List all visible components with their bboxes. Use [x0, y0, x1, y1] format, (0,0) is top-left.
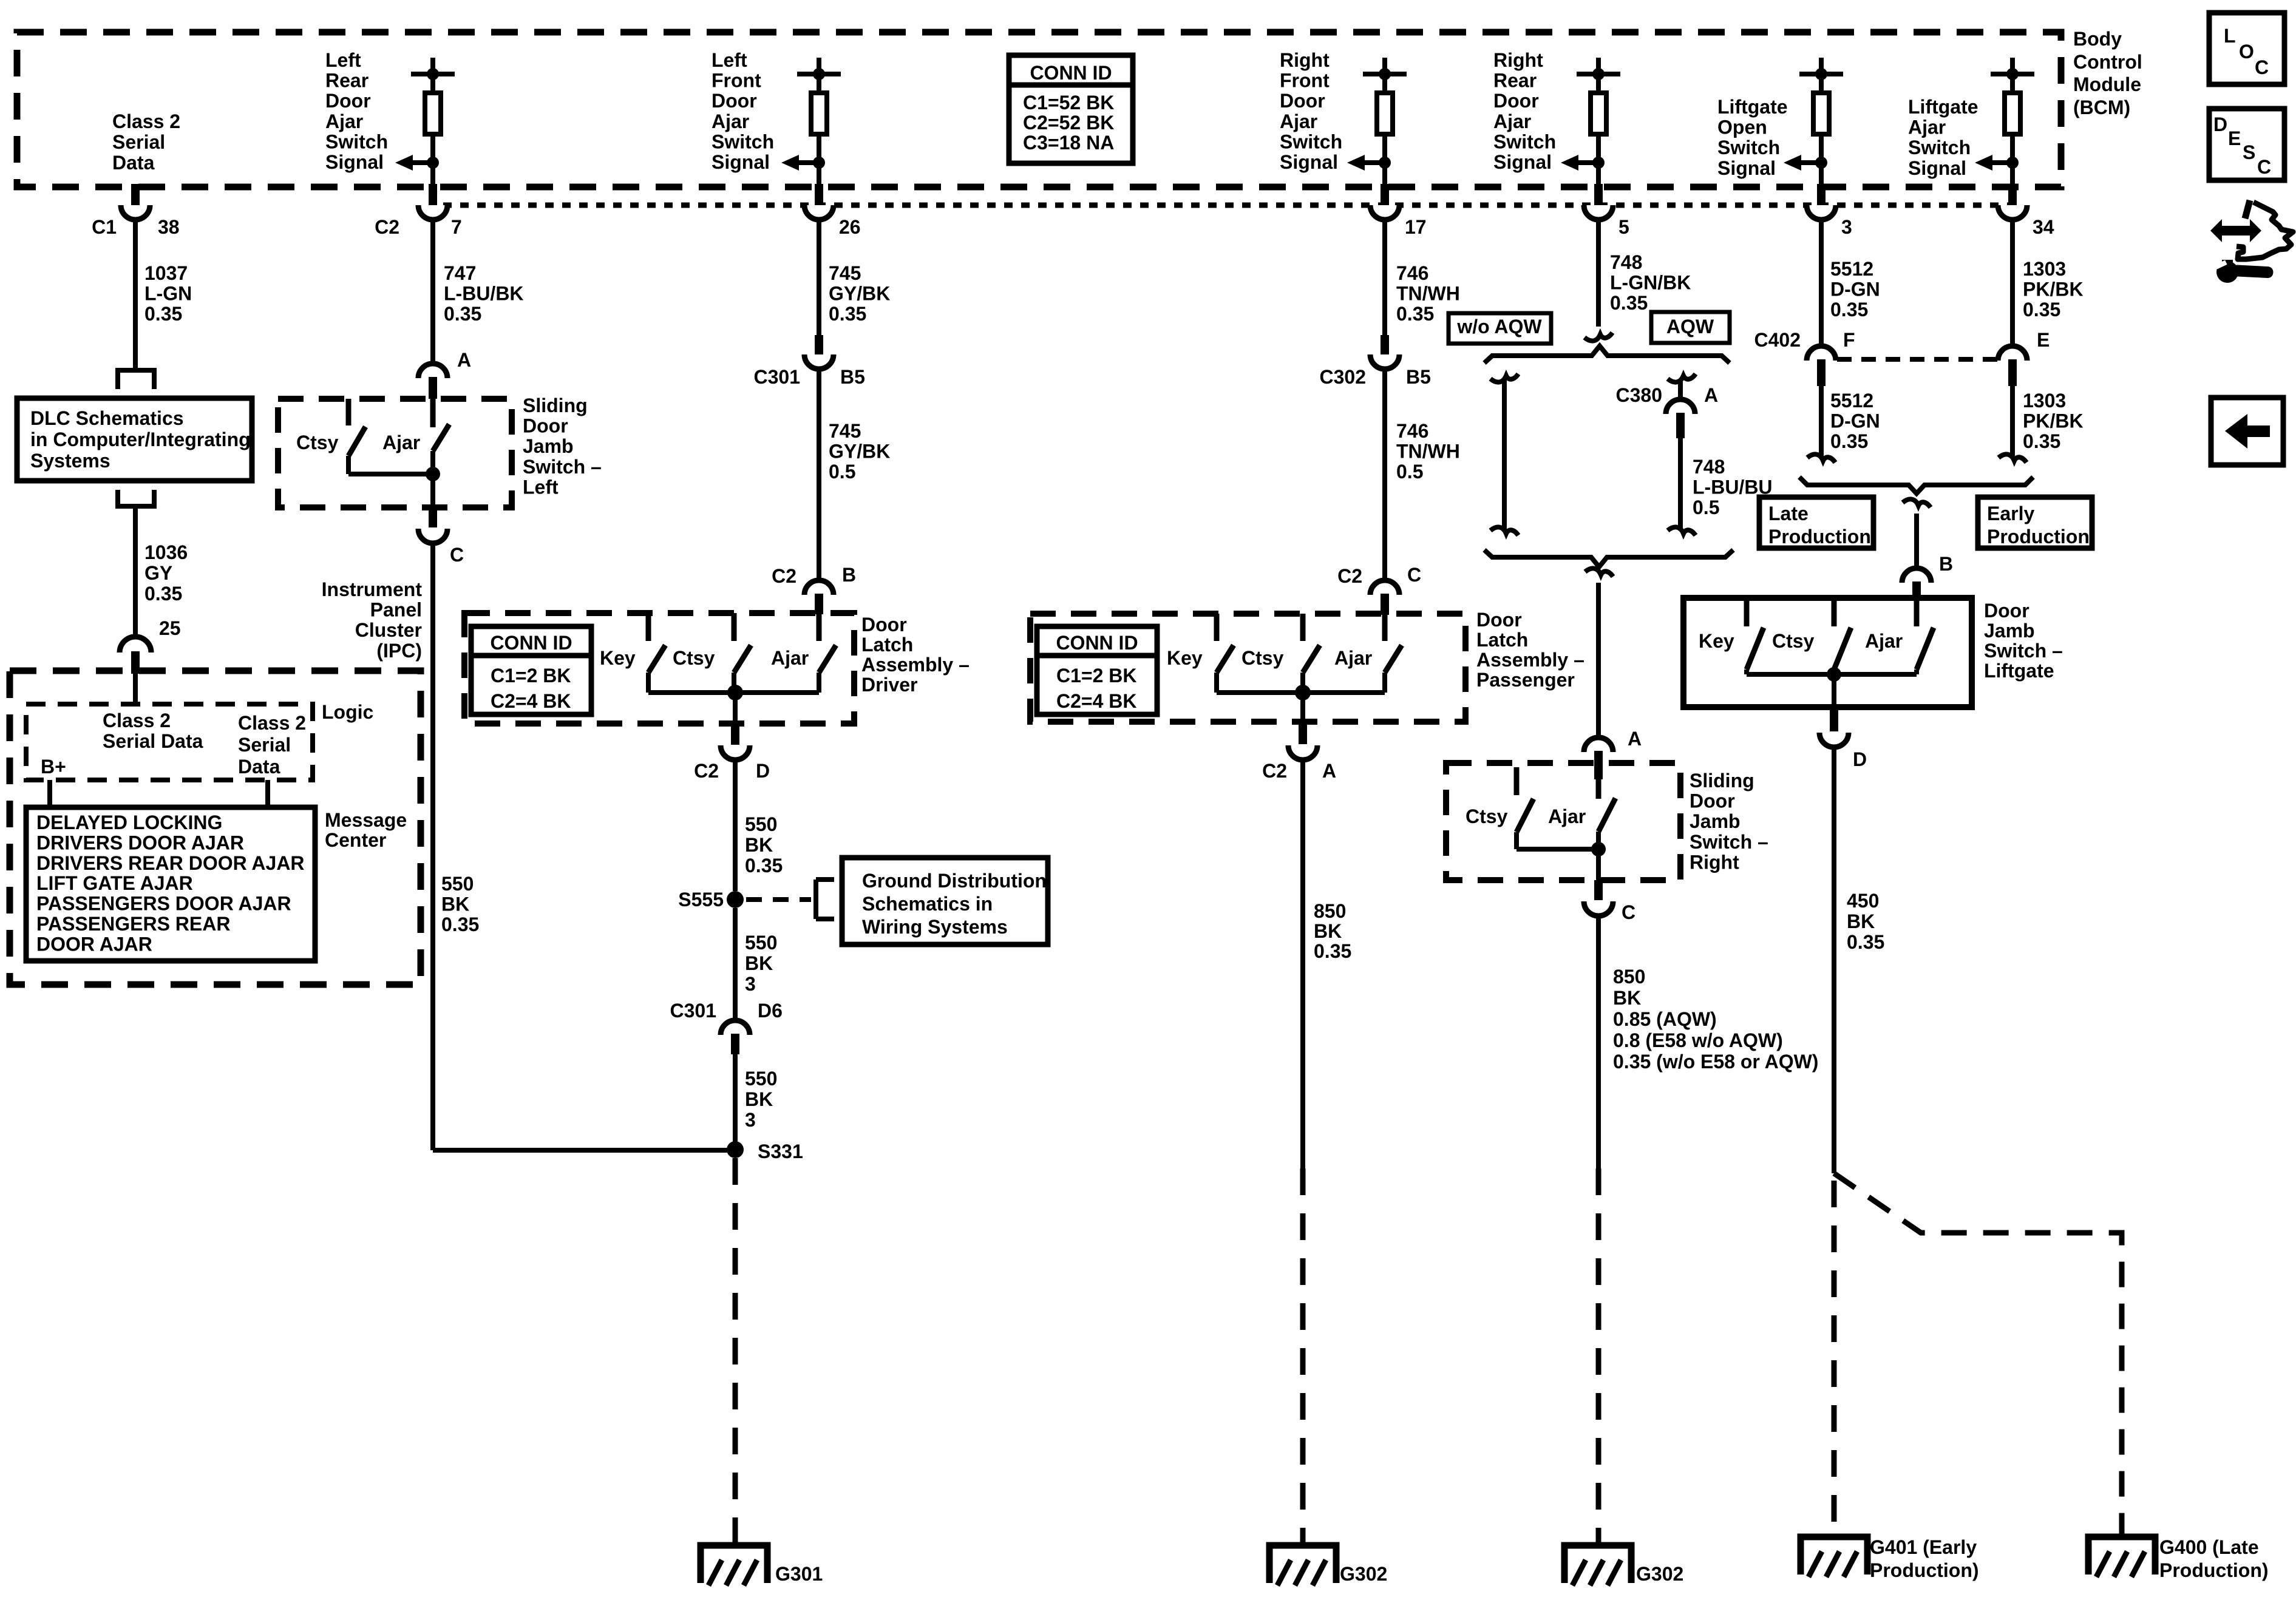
svg-text:A: A — [1322, 760, 1336, 782]
connector pin: sliding door left pin A — [429, 377, 437, 399]
connector pin (BCM side): BCM C1 pin 38 — [131, 184, 140, 205]
svg-text:746: 746 — [1396, 262, 1428, 284]
svg-text:G400 (Late: G400 (Late — [2159, 1536, 2259, 1558]
dashed wire: sliding door right to ground G302 — [1596, 1168, 1601, 1545]
svg-text:Ajar: Ajar — [325, 110, 363, 132]
svg-text:Cluster: Cluster — [355, 619, 422, 641]
svg-text:0.8 (E58 w/o AQW): 0.8 (E58 w/o AQW) — [1613, 1029, 1783, 1051]
svg-text:7: 7 — [451, 216, 462, 238]
connector pin: C302 B5 — [1381, 335, 1389, 354]
junction dot: passenger latch common — [1295, 685, 1311, 700]
svg-text:C: C — [450, 544, 464, 566]
svg-text:Signal: Signal — [325, 151, 384, 173]
table: passenger latch CONN ID — [1037, 626, 1157, 714]
component box: Door Jamb Switch - Liftgate — [1683, 598, 1972, 707]
connector socket: BCM C2 pin 3 — [1807, 205, 1836, 220]
svg-text:Wiring Systems: Wiring Systems — [862, 916, 1008, 938]
svg-text:Early: Early — [1987, 503, 2034, 524]
component plug bracket above DLC box — [115, 368, 157, 373]
resistor: left rear door ajar switch sense (inside BCM) — [430, 58, 435, 74]
svg-text:GY: GY — [144, 562, 172, 584]
svg-text:Switch: Switch — [1280, 131, 1342, 152]
svg-text:Ctsy: Ctsy — [1466, 805, 1508, 827]
svg-text:S: S — [2243, 141, 2255, 163]
wire: right rear door ajar resistor to BCM edge — [1596, 134, 1601, 187]
svg-text:Driver: Driver — [861, 674, 918, 696]
svg-text:Signal: Signal — [1908, 157, 1966, 179]
svg-text:G302: G302 — [1340, 1563, 1387, 1585]
svg-text:E: E — [2228, 127, 2241, 149]
connector socket: BCM C2 pin 17 — [1370, 205, 1399, 220]
svg-text:Ctsy: Ctsy — [1772, 630, 1815, 652]
svg-text:DRIVERS REAR DOOR AJAR: DRIVERS REAR DOOR AJAR — [36, 852, 305, 874]
svg-text:BK: BK — [745, 834, 773, 856]
connector C402 in-line dashed boundary — [1837, 357, 1997, 362]
svg-text:C2=4 BK: C2=4 BK — [491, 690, 571, 712]
svg-text:PK/BK: PK/BK — [2023, 410, 2084, 432]
svg-text:C: C — [1622, 901, 1635, 923]
svg-text:Class 2: Class 2 — [103, 710, 171, 731]
switch Ctsy (liftgate): blade — [1834, 628, 1851, 670]
junction dot on liftgate ajar wire — [2006, 157, 2019, 169]
svg-text:Passenger: Passenger — [1476, 669, 1575, 691]
wire: right front door ajar resistor to BCM edge — [1382, 134, 1387, 187]
switch Ajar (passenger latch): stub from pin C — [1382, 614, 1388, 641]
switch Key (driver latch): blade — [648, 645, 665, 673]
svg-text:Switch –: Switch – — [1984, 640, 2063, 662]
svg-text:(IPC): (IPC) — [376, 640, 422, 662]
svg-text:1037: 1037 — [144, 262, 188, 284]
svg-text:Jamb: Jamb — [1690, 810, 1741, 832]
svg-text:w/o AQW: w/o AQW — [1456, 316, 1542, 337]
svg-text:Switch: Switch — [712, 131, 774, 152]
svg-text:A: A — [457, 349, 471, 371]
svg-text:Ctsy: Ctsy — [296, 432, 339, 453]
svg-text:Front: Front — [1280, 70, 1330, 92]
ground G401 — [1801, 1537, 1867, 1575]
module box: Body Control Module (BCM), dashed outline — [17, 32, 2061, 187]
svg-text:Production): Production) — [2159, 1559, 2269, 1581]
junction dot on right rear door ajar wire — [1592, 157, 1605, 169]
svg-text:5: 5 — [1618, 216, 1629, 238]
wire: circuit 745 GY/BK 0.5 — [817, 369, 821, 580]
table: driver latch CONN ID — [471, 626, 591, 714]
svg-text:0.35: 0.35 — [2023, 299, 2060, 320]
component box: Sliding Door Jamb Switch - Left, dashed — [278, 399, 512, 507]
switch Ctsy (driver latch): contact stub — [732, 613, 737, 641]
connector socket: driver latch C2 pin B — [804, 580, 834, 595]
svg-text:TN/WH: TN/WH — [1396, 441, 1460, 463]
connector pin: liftgate jamb switch pin B — [1912, 581, 1921, 598]
connector pin (BCM side): BCM C2 pin 34 — [2008, 184, 2017, 205]
wire: liftgate switch common rail — [1747, 672, 1917, 677]
svg-text:550: 550 — [745, 813, 777, 835]
svg-text:L-BU/BK: L-BU/BK — [444, 283, 524, 305]
svg-text:0.35: 0.35 — [1396, 303, 1434, 325]
svg-text:C1=52 BK: C1=52 BK — [1023, 92, 1114, 114]
wire: circuit 745 GY/BK — [817, 220, 821, 335]
svg-text:C: C — [2257, 156, 2271, 178]
svg-text:(BCM): (BCM) — [2073, 97, 2130, 118]
svg-text:Door: Door — [712, 90, 757, 112]
option box: w/o AQW — [1449, 313, 1551, 344]
connector pin: passenger latch C2 pin C — [1381, 594, 1389, 615]
wire curl: AQW branch bottom — [1668, 527, 1696, 535]
svg-text:C302: C302 — [1320, 366, 1367, 388]
resistor: right rear door ajar switch sense (inside BCM) — [1596, 58, 1601, 74]
svg-text:BK: BK — [1314, 920, 1342, 942]
resistor: right front door ajar switch sense (inside BCM) — [1382, 58, 1387, 74]
svg-text:Switch: Switch — [1493, 131, 1556, 152]
svg-text:Switch –: Switch – — [1690, 831, 1768, 853]
svg-text:26: 26 — [839, 216, 861, 238]
svg-text:D: D — [756, 760, 770, 782]
svg-text:0.35: 0.35 — [1610, 292, 1648, 314]
svg-text:A: A — [1704, 384, 1718, 406]
signal arrow: liftgate open — [1801, 160, 1821, 165]
block: IPC Logic, dashed — [26, 704, 313, 780]
reference box: Ground Distribution Schematics — [842, 858, 1048, 944]
svg-text:C2: C2 — [772, 565, 796, 587]
svg-text:Switch –: Switch – — [523, 456, 602, 478]
svg-text:550: 550 — [745, 1068, 777, 1090]
signal arrow: left rear door ajar — [413, 160, 433, 165]
svg-text:0.35: 0.35 — [2023, 430, 2060, 452]
icon box: LOC — [2209, 13, 2284, 84]
svg-text:1303: 1303 — [2023, 258, 2066, 280]
connector pin: driver latch C2 pin B — [815, 594, 823, 614]
wire: circuit 850 BK — [1596, 916, 1601, 1168]
svg-text:C402: C402 — [1754, 329, 1801, 351]
table: BCM CONN ID — [1009, 55, 1133, 163]
svg-text:PASSENGERS REAR: PASSENGERS REAR — [36, 913, 230, 935]
switch Ctsy (driver latch): blade — [734, 645, 751, 673]
svg-text:Ajar: Ajar — [771, 647, 809, 669]
switch Key (liftgate): contact stub — [1744, 598, 1750, 626]
option box: Late Production — [1759, 497, 1873, 548]
component box: Door Latch Assembly - Driver, dashed — [464, 613, 854, 724]
connector pin: sliding door left pin C — [429, 507, 437, 527]
svg-text:Instrument: Instrument — [322, 578, 423, 600]
svg-text:Ajar: Ajar — [1865, 630, 1903, 652]
svg-text:in Computer/Integrating: in Computer/Integrating — [30, 429, 251, 450]
svg-text:0.35: 0.35 — [441, 914, 479, 935]
svg-text:Class 2: Class 2 — [112, 110, 180, 132]
wire curl: early production branch end — [1999, 454, 2026, 463]
svg-text:Rear: Rear — [325, 70, 369, 92]
svg-text:Rear: Rear — [1493, 70, 1537, 92]
svg-text:AQW: AQW — [1666, 316, 1714, 337]
svg-text:450: 450 — [1847, 890, 1879, 912]
svg-text:Door: Door — [523, 415, 568, 437]
svg-text:0.35: 0.35 — [1314, 940, 1351, 962]
switch Key (passenger latch): blade to common rail — [1214, 673, 1219, 693]
switch Ajar (passenger latch): blade to rail — [1382, 673, 1387, 693]
wire: circuit 748 L-BU/BU 0.5 — [1678, 438, 1683, 531]
connector pin: sliding door right pin C — [1594, 880, 1603, 900]
icon: connector service glyph (double arrow, shell outline, wrench) — [2210, 219, 2261, 242]
svg-text:CONN ID: CONN ID — [1056, 632, 1138, 654]
svg-text:PK/BK: PK/BK — [2023, 279, 2084, 300]
svg-text:Assembly –: Assembly – — [1476, 649, 1584, 671]
connector socket: sliding door left pin C — [418, 529, 447, 543]
connector socket: C380 pin A — [1666, 399, 1695, 414]
svg-text:Class 2: Class 2 — [238, 712, 306, 734]
option brace (bottom, merges branches) — [1484, 550, 1733, 567]
connector pin: passenger latch C2 pin A — [1299, 722, 1307, 744]
wire: AQW branch to C380 — [1678, 380, 1683, 399]
svg-text:Module: Module — [2073, 73, 2141, 95]
svg-text:CONN ID: CONN ID — [490, 632, 572, 654]
signal arrow: left front door ajar — [799, 160, 819, 165]
svg-text:Assembly –: Assembly – — [861, 654, 970, 676]
dashed wire: liftgate ground branch (late production) jog to G400 — [1834, 1173, 2122, 1537]
wire curl: merged branch continue — [1585, 568, 1613, 577]
svg-text:Serial: Serial — [238, 734, 291, 756]
svg-text:Door: Door — [1690, 790, 1735, 812]
svg-text:A: A — [1628, 728, 1642, 750]
svg-text:Ajar: Ajar — [1280, 110, 1317, 132]
svg-text:Data: Data — [112, 152, 155, 174]
ground G301 — [701, 1545, 767, 1583]
connector socket: sliding door right pin C — [1584, 901, 1613, 916]
wire: pin 25 into IPC logic — [133, 671, 138, 704]
svg-text:C1: C1 — [92, 216, 117, 238]
switch Ajar (driver latch): stub from pin B — [817, 613, 822, 641]
junction dot on right front door ajar wire — [1379, 157, 1391, 169]
svg-text:1036: 1036 — [144, 541, 188, 563]
svg-text:Door: Door — [325, 90, 371, 112]
wire: left front door ajar resistor to BCM edge — [817, 134, 821, 187]
icon box: back arrow — [2211, 398, 2283, 465]
production option brace (merges liftgate branches) — [1799, 477, 2033, 493]
svg-text:748: 748 — [1693, 456, 1725, 478]
wire: circuit 850 BK 0.35 — [1300, 760, 1305, 1168]
svg-text:Front: Front — [712, 70, 761, 92]
svg-text:B: B — [842, 564, 856, 586]
svg-text:O: O — [2239, 41, 2254, 63]
switch Ajar (left sliding door): blade — [433, 424, 449, 451]
svg-text:DLC Schematics: DLC Schematics — [30, 407, 184, 429]
svg-text:Open: Open — [1717, 117, 1767, 138]
svg-text:Jamb: Jamb — [523, 435, 574, 457]
svg-text:F: F — [1843, 329, 1855, 351]
connector socket: liftgate switch pin D — [1819, 733, 1849, 747]
svg-text:PASSENGERS DOOR AJAR: PASSENGERS DOOR AJAR — [36, 893, 291, 915]
svg-text:3: 3 — [1841, 216, 1852, 238]
svg-text:0.35: 0.35 — [829, 303, 866, 325]
svg-text:Signal: Signal — [1717, 157, 1776, 179]
dashed wire: passenger latch to ground G302 — [1300, 1168, 1306, 1545]
wire: B+ to message center — [47, 780, 52, 807]
dashed wire: S331 to ground G301 — [733, 1158, 738, 1545]
svg-text:17: 17 — [1405, 216, 1427, 238]
svg-text:Key: Key — [1699, 630, 1734, 652]
svg-text:850: 850 — [1314, 900, 1346, 922]
svg-text:D: D — [2213, 114, 2227, 135]
switch Ctsy (right sliding door): blade — [1517, 799, 1533, 832]
connector pin (BCM side): BCM C2 pin 3 — [1817, 184, 1826, 205]
resistor: liftgate open switch sense (inside BCM) — [1819, 58, 1824, 74]
junction dot on left rear door ajar wire — [427, 157, 439, 169]
svg-text:Latch: Latch — [861, 634, 913, 656]
wire: circuit 747 L-BU/BK — [430, 220, 435, 364]
svg-text:B5: B5 — [840, 366, 865, 388]
switch Ctsy (right sliding door): blade to common rail — [1514, 832, 1519, 849]
wire: ajar common down (right sliding door) — [1596, 832, 1601, 880]
svg-text:Ajar: Ajar — [1908, 117, 1946, 138]
svg-text:Switch: Switch — [1908, 137, 1971, 158]
connector pin: C301 D6 — [731, 1034, 739, 1054]
svg-text:Jamb: Jamb — [1984, 620, 2035, 642]
svg-text:TN/WH: TN/WH — [1396, 283, 1460, 305]
switch Ctsy (liftgate): contact stub — [1832, 598, 1837, 626]
signal arrow: right rear door ajar — [1578, 160, 1598, 165]
svg-text:Production: Production — [1768, 526, 1871, 547]
wire: driver latch output — [733, 693, 738, 725]
svg-text:Ctsy: Ctsy — [673, 647, 715, 669]
svg-text:B: B — [1939, 553, 1953, 575]
svg-text:0.5: 0.5 — [1396, 461, 1423, 483]
connector C2 in-line dotted boundary — [443, 203, 2013, 208]
wire: circuit 1303 PK/BK 0.35 (lower) — [2010, 386, 2015, 457]
svg-text:Door: Door — [1280, 90, 1325, 112]
svg-text:0.35: 0.35 — [444, 303, 481, 325]
connector socket: liftgate jamb switch pin B — [1902, 568, 1931, 583]
svg-text:Production: Production — [1987, 526, 2090, 547]
svg-text:0.35: 0.35 — [1847, 931, 1884, 953]
svg-text:S555: S555 — [678, 889, 724, 910]
switch Ajar (liftgate): blade — [1917, 628, 1934, 670]
svg-text:D-GN: D-GN — [1830, 279, 1880, 300]
svg-text:Ajar: Ajar — [1493, 110, 1531, 132]
svg-text:Key: Key — [1167, 647, 1203, 669]
wire: circuit 1036 GY — [133, 509, 138, 637]
connector pin: C380 pin A — [1676, 413, 1685, 438]
switch Key (passenger latch): contact stub — [1214, 614, 1220, 641]
svg-text:Ground Distribution: Ground Distribution — [862, 870, 1047, 892]
connector socket: sliding door right pin A — [1584, 737, 1613, 752]
svg-text:Door: Door — [861, 614, 907, 636]
ground G302 passenger — [1269, 1545, 1336, 1583]
svg-text:Late: Late — [1768, 503, 1809, 524]
svg-text:E: E — [2037, 329, 2050, 351]
component box: Sliding Door Jamb Switch - Right, dashed — [1446, 763, 1680, 880]
svg-text:0.35 (w/o E58 or AQW): 0.35 (w/o E58 or AQW) — [1613, 1051, 1818, 1073]
connector pin: IPC pin 25 — [131, 651, 140, 674]
svg-text:Switch: Switch — [1717, 137, 1780, 158]
svg-text:Serial Data: Serial Data — [103, 730, 203, 752]
svg-text:25: 25 — [159, 617, 181, 639]
switch Ctsy (liftgate): blade to common rail — [1832, 670, 1836, 674]
wire: ctsy branch to common (right sliding door) — [1517, 847, 1598, 852]
wire: 550 BK from sliding door left to S331 — [433, 1148, 735, 1153]
dashed reference wire: S555 to ground distribution note — [746, 897, 811, 902]
connector socket: passenger latch C2 pin C — [1370, 580, 1399, 595]
wire curl: w/o AQW branch bottom — [1490, 527, 1518, 535]
wire: passenger latch output — [1300, 693, 1305, 724]
svg-text:Liftgate: Liftgate — [1984, 660, 2054, 682]
svg-text:BK: BK — [1847, 910, 1875, 932]
svg-text:C2: C2 — [375, 216, 399, 238]
switch Ctsy (left sliding door): contact stub — [346, 399, 352, 425]
svg-text:C3=18 NA: C3=18 NA — [1023, 132, 1114, 154]
svg-text:BK: BK — [745, 952, 773, 974]
svg-text:Right: Right — [1690, 851, 1739, 873]
svg-text:Signal: Signal — [1493, 151, 1552, 173]
svg-text:L: L — [2224, 25, 2236, 47]
wire: circuit 746 TN/WH 0.5 — [1382, 369, 1387, 580]
connector socket: BCM C2 pin 26 — [804, 205, 834, 220]
svg-text:Signal: Signal — [712, 151, 770, 173]
svg-text:Body: Body — [2073, 28, 2122, 50]
wire: to liftgate jamb switch pin B — [1914, 514, 1919, 569]
wire: driver latch common rail — [648, 690, 819, 695]
switch Ctsy (right sliding door): contact stub — [1514, 767, 1520, 795]
wire: liftgate open resistor to BCM edge — [1819, 134, 1824, 187]
connector socket: C301 D6 — [721, 1020, 750, 1035]
svg-text:Message: Message — [325, 809, 407, 831]
connector socket: sliding door left pin A — [418, 364, 447, 378]
switch Ctsy (left sliding door): blade — [348, 427, 365, 456]
wire curl: late production branch end — [1807, 454, 1835, 463]
svg-text:Control: Control — [2073, 51, 2142, 73]
svg-text:38: 38 — [158, 216, 180, 238]
connector pin (BCM side): BCM C2 pin 26 — [815, 184, 823, 205]
connector socket: BCM C1 pin 38 — [121, 205, 150, 220]
connector pin: liftgate switch pin D — [1830, 707, 1838, 731]
junction dot: liftgate switch common — [1827, 667, 1841, 682]
svg-text:Key: Key — [600, 647, 636, 669]
svg-text:Ctsy: Ctsy — [1241, 647, 1284, 669]
svg-text:Systems: Systems — [30, 450, 110, 472]
junction dot: right sliding door common — [1591, 842, 1606, 856]
svg-text:C2: C2 — [1337, 565, 1362, 587]
switch Ajar (liftgate): stub from pin B — [1914, 598, 1920, 626]
switch Ajar (driver latch): blade to rail — [817, 673, 821, 693]
wire: circuit 746 TN/WH — [1382, 220, 1387, 335]
svg-text:746: 746 — [1396, 420, 1428, 442]
svg-text:C: C — [2255, 56, 2269, 78]
signal arrow: right front door ajar — [1365, 160, 1385, 165]
wire: ajar common down (left sliding door) — [430, 451, 435, 507]
connector socket: IPC pin 25 — [120, 637, 151, 653]
module box: Instrument Panel Cluster (IPC), dashed outline — [10, 671, 421, 985]
svg-text:Sliding: Sliding — [523, 395, 588, 416]
svg-text:Production): Production) — [1870, 1559, 1979, 1581]
svg-text:D-GN: D-GN — [1830, 410, 1880, 432]
icon box: DESC — [2209, 109, 2284, 180]
connector socket: BCM C2 pin 7 — [418, 205, 447, 220]
svg-text:BK: BK — [441, 893, 469, 915]
switch Ctsy (passenger latch): blade to common rail — [1300, 673, 1305, 693]
component plug bracket below DLC box — [115, 490, 120, 509]
svg-text:0.35: 0.35 — [1830, 430, 1868, 452]
switch Ajar (left sliding door): stub from pin A — [430, 399, 436, 427]
svg-text:C2: C2 — [1262, 760, 1287, 782]
svg-text:Ajar: Ajar — [1548, 805, 1586, 827]
wire: circuit 550 BK 3 to C301 — [733, 908, 738, 1020]
svg-text:C301: C301 — [754, 366, 801, 388]
svg-text:Liftgate: Liftgate — [1908, 96, 1978, 118]
svg-text:G401 (Early: G401 (Early — [1870, 1536, 1977, 1558]
svg-text:S331: S331 — [758, 1141, 803, 1162]
svg-text:Logic: Logic — [322, 701, 373, 723]
svg-text:C2=4 BK: C2=4 BK — [1056, 690, 1137, 712]
svg-text:Ajar: Ajar — [712, 110, 749, 132]
splice S555 — [727, 891, 744, 908]
junction dot: left sliding door common — [426, 467, 440, 481]
